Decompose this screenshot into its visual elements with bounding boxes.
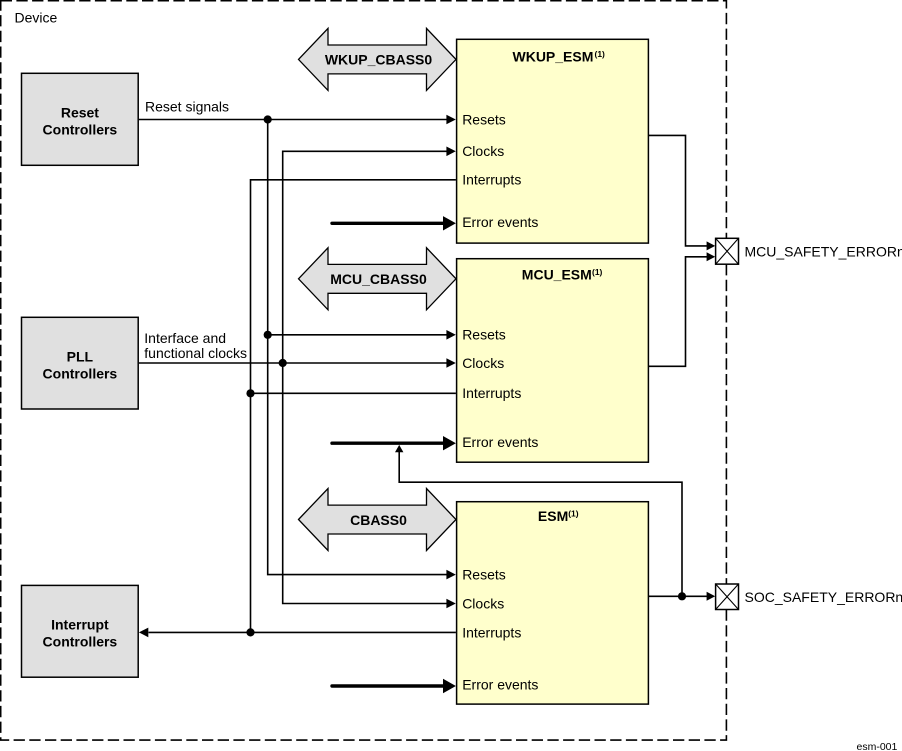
arrowhead into ESM Clocks (446, 599, 455, 609)
svg-text:Interrupts: Interrupts (462, 385, 521, 401)
svg-text:CBASS0: CBASS0 (350, 512, 407, 528)
wire WKUP interrupts (251, 180, 456, 633)
svg-text:Clocks: Clocks (462, 595, 504, 611)
wire reset signals horizontal (139, 119, 447, 121)
wire clocks vertical trunk (283, 151, 448, 603)
arrowhead WKUP output (707, 241, 716, 250)
junction dot ESM interrupts (246, 628, 254, 636)
svg-text:ESM: ESM (538, 508, 568, 524)
module box MCU_ESM (457, 259, 649, 463)
wire ESM output to SOC_SAFETY_ERRORn (648, 595, 707, 597)
block Reset Controllers (22, 73, 139, 165)
svg-text:Error events: Error events (462, 214, 538, 230)
arrowhead into ESM Resets (446, 570, 455, 580)
svg-text:Resets: Resets (462, 111, 506, 127)
device dashed boundary (1, 1, 727, 740)
wire resets vertical trunk (268, 120, 448, 575)
svg-text:Error events: Error events (462, 676, 538, 692)
arrowhead into WKUP Resets (446, 115, 455, 125)
wire MCU error events thick (332, 442, 444, 445)
wire MCU interrupts (251, 392, 456, 394)
junction dot ESM output (678, 592, 686, 600)
pad MCU_SAFETY_ERRORn (716, 238, 739, 264)
junction dot MCU resets (264, 331, 272, 339)
svg-text:Reset: Reset (61, 105, 99, 121)
module box ESM (457, 502, 649, 704)
arrowhead into WKUP Clocks (446, 147, 455, 157)
bus arrow MCU_CBASS0 (299, 248, 457, 310)
wire ESM error events thick (332, 684, 444, 687)
svg-text:Error events: Error events (462, 434, 538, 450)
block Interrupt Controllers (22, 585, 139, 677)
arrowhead into MCU Clocks (446, 358, 455, 368)
svg-text:Device: Device (15, 10, 58, 26)
arrowhead thick into WKUP Error events (443, 216, 456, 230)
svg-text:SOC_SAFETY_ERRORn: SOC_SAFETY_ERRORn (745, 589, 902, 605)
svg-text:Controllers: Controllers (43, 122, 118, 138)
block PLL Controllers (22, 317, 139, 409)
arrowhead MCU output (707, 252, 716, 261)
pad SOC_SAFETY_ERRORn (716, 584, 739, 610)
svg-text:Controllers: Controllers (43, 366, 118, 382)
svg-text:WKUP_ESM: WKUP_ESM (513, 48, 594, 64)
arrowhead thick into MCU Error events (443, 436, 456, 450)
svg-text:WKUP_CBASS0: WKUP_CBASS0 (325, 52, 433, 68)
module box WKUP_ESM (457, 39, 649, 243)
svg-text:(1): (1) (595, 49, 606, 59)
svg-text:functional clocks: functional clocks (144, 345, 247, 361)
svg-text:Resets: Resets (462, 567, 506, 583)
arrowhead into MCU Resets (446, 330, 455, 340)
junction dot clocks trunk (279, 359, 287, 367)
svg-text:Interrupts: Interrupts (462, 172, 521, 188)
arrowhead thick into ESM Error events (443, 679, 456, 693)
bus arrow WKUP_CBASS0 (299, 28, 457, 90)
svg-text:Resets: Resets (462, 327, 506, 343)
arrowhead up into MCU error events (395, 445, 403, 452)
bus arrow CBASS0 (299, 489, 457, 551)
svg-text:(1): (1) (592, 267, 603, 277)
svg-text:MCU_SAFETY_ERRORn: MCU_SAFETY_ERRORn (745, 243, 902, 259)
svg-text:Interrupt: Interrupt (51, 617, 109, 633)
svg-text:Reset signals: Reset signals (145, 98, 229, 114)
svg-text:Clocks: Clocks (462, 355, 504, 371)
svg-text:Interface and: Interface and (144, 330, 226, 346)
svg-text:Clocks: Clocks (462, 143, 504, 159)
svg-text:Interrupts: Interrupts (462, 624, 521, 640)
svg-text:(1): (1) (568, 508, 579, 518)
svg-text:MCU_CBASS0: MCU_CBASS0 (330, 271, 427, 287)
wire clocks from PLL (139, 362, 447, 364)
wire WKUP error events thick (332, 222, 444, 225)
wire ESM error feedback to MCU error events (399, 452, 682, 596)
svg-text:Controllers: Controllers (43, 634, 118, 650)
wire ESM interrupts to interrupt controllers (149, 631, 456, 633)
svg-text:esm-001: esm-001 (857, 741, 898, 751)
svg-text:MCU_ESM: MCU_ESM (522, 266, 592, 282)
wire WKUP output to MCU_SAFETY_ERRORn (648, 135, 707, 246)
junction dot reset trunk top (264, 115, 272, 123)
svg-text:PLL: PLL (67, 348, 94, 364)
arrowhead into Interrupt Controllers (139, 628, 148, 638)
junction dot MCU interrupts (246, 389, 254, 397)
arrowhead ESM output (707, 592, 716, 601)
wire MCU output to MCU_SAFETY_ERRORn (648, 257, 707, 367)
wire MCU resets branch (268, 334, 448, 336)
